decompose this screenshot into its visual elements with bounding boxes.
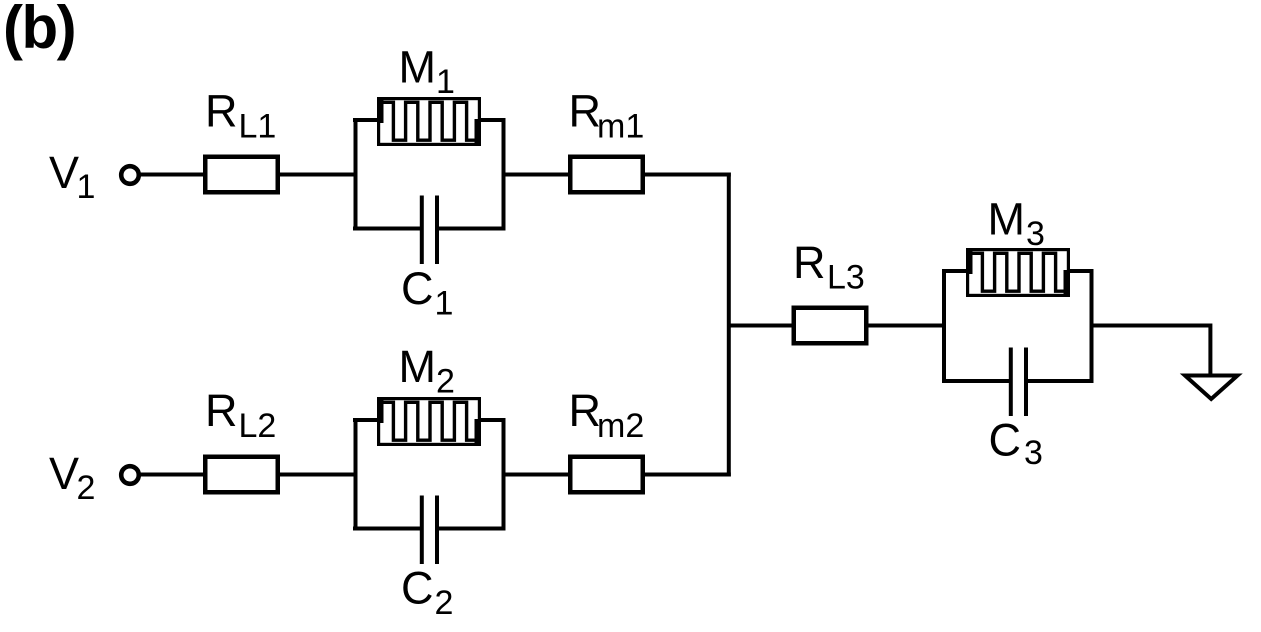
svg-text:V: V <box>49 448 79 499</box>
svg-text:1: 1 <box>435 285 454 323</box>
svg-text:2: 2 <box>77 469 96 507</box>
svg-text:R: R <box>205 385 238 436</box>
svg-text:L3: L3 <box>827 259 865 297</box>
svg-text:m2: m2 <box>597 407 644 445</box>
svg-text:2: 2 <box>435 584 454 622</box>
svg-text:R: R <box>793 237 826 288</box>
svg-text:V: V <box>49 147 79 198</box>
svg-text:1: 1 <box>77 168 96 206</box>
svg-text:3: 3 <box>1024 434 1043 472</box>
svg-text:(b): (b) <box>3 0 75 61</box>
svg-text:2: 2 <box>436 363 455 401</box>
svg-text:L2: L2 <box>239 407 277 445</box>
svg-text:3: 3 <box>1026 215 1045 253</box>
svg-text:C: C <box>401 263 434 314</box>
svg-text:M: M <box>988 194 1026 245</box>
svg-text:L1: L1 <box>239 108 277 146</box>
svg-text:R: R <box>205 86 238 137</box>
svg-text:1: 1 <box>436 63 455 101</box>
svg-text:C: C <box>401 563 434 614</box>
svg-text:M: M <box>399 42 437 93</box>
svg-text:C: C <box>989 415 1022 466</box>
svg-text:m1: m1 <box>597 108 644 146</box>
svg-text:M: M <box>399 341 437 392</box>
